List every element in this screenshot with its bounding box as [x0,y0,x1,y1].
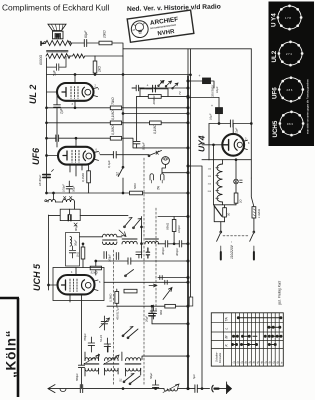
svg-text:7µF: 7µF [235,128,239,133]
svg-text:350/385V: 350/385V [211,84,215,97]
svg-text:0,3MΩ: 0,3MΩ [111,125,115,135]
svg-text:TA: TA [157,186,161,190]
tuning coils row B [85,368,141,376]
svg-text:300pF: 300pF [175,248,179,256]
earth series cap [195,385,197,393]
svg-text:UL2: UL2 [271,50,278,62]
resistor row1 70k [47,107,189,109]
resistor 10k [99,41,112,45]
elco 50uF on bus top [132,85,144,91]
svg-text:9 6 3: 9 6 3 [287,122,293,126]
svg-text:+: + [147,84,149,88]
svg-text:UF6: UF6 [272,87,279,99]
svg-text:T4: T4 [178,91,182,95]
padder caps [104,252,119,260]
mains switch pole 1 [217,231,222,259]
svg-text:2Ω: 2Ω [239,200,243,204]
pins socket UF6 [290,76,293,79]
row TA contact bar [237,317,282,319]
UY4 frame [202,124,251,161]
svg-text:450/517µF: 450/517µF [116,306,120,320]
svg-text:6000Ω: 6000Ω [39,54,43,65]
resistor R feedback 2k [95,55,123,57]
left rail lower wire [48,215,50,290]
svg-text:U Y4: U Y4 [271,13,278,27]
svg-text:0,3MΩ: 0,3MΩ [109,293,113,302]
svg-text:300pF: 300pF [161,247,165,255]
output arrow right [149,284,157,287]
trimmer cap [100,316,110,330]
anode resistor 95k [166,217,182,244]
svg-text:UY4: UY4 [197,135,207,152]
svg-text:+: + [199,74,201,78]
svg-text:50pF: 50pF [74,240,78,246]
frame top wire [123,48,251,50]
TA jack [162,157,189,174]
resistor row2 0.1M [47,122,189,124]
tube socket chart black strip [269,2,315,147]
svg-text:Schalter-: Schalter- [215,352,219,362]
svg-text:0,1MΩ: 0,1MΩ [153,124,157,134]
title block corner [0,298,19,397]
wire y113.5 [123,113,188,115]
pins socket UL2 [289,41,292,44]
socket UCH5 [280,112,303,135]
svg-text:0,1MΩ: 0,1MΩ [81,172,85,182]
IF feed wire vertical [141,217,143,259]
svg-text:UF6: UF6 [31,147,41,165]
screen feed wire y306 [107,305,188,307]
resistor row3 0.3M [47,138,189,148]
wire row y74.5 [47,49,191,297]
dial lamp branch [234,159,243,205]
HT wire with cap 7uF to rectifier [209,123,251,125]
svg-text:2µF: 2µF [60,107,64,115]
svg-text:„Köln“: „Köln“ [3,330,18,378]
svg-text:2000Ω: 2000Ω [152,95,156,106]
svg-text:50pF: 50pF [72,185,76,192]
svg-text:S1: S1 [119,378,123,382]
cathode elco UF6 [43,175,50,178]
wire y216.5 [158,216,188,218]
svg-text:760pF: 760pF [83,333,87,341]
tube UL2 [47,75,100,108]
HT bus thick [187,49,189,76]
cap 0.5uF [133,141,140,148]
row L contacts [268,326,281,328]
osc coil feed wire y356 [142,356,188,359]
svg-text:51-43: 51-43 [99,335,103,342]
socket UY4 [278,6,301,29]
row M contacts [233,335,283,337]
transformer core [47,51,69,52]
output transformer secondary winding [46,54,70,59]
padder caps left [88,337,94,352]
svg-text:1 7 8: 1 7 8 [285,16,291,20]
aerial series cap [80,385,82,393]
svg-text:man sieht von unten gegen die: man sieht von unten gegen die Fassung ge… [307,79,310,134]
stamp NVHR archief [127,10,194,42]
aerial coil [164,389,178,391]
hum coil winding [68,54,95,58]
svg-text:0,1µF: 0,1µF [107,160,111,168]
earth bus wire bottom [48,388,210,390]
wire y88 [144,88,219,98]
svg-text:100pF: 100pF [108,254,112,262]
bus line x202 [188,166,202,389]
screen wire row y193 with 50 ohm [47,192,189,194]
svg-text:1kΩ: 1kΩ [76,251,80,257]
thermo fuse block [214,160,237,232]
svg-text:110/220V: 110/220V [230,244,234,259]
switch S2 [118,168,123,177]
svg-text:10kΩ: 10kΩ [103,30,107,38]
IF tuning cap [136,252,142,258]
MAIN SCHEMATIC [28,24,261,393]
capacitor 80uF [84,40,86,47]
svg-text:100pF: 100pF [177,225,181,233]
volume pot arrow [163,288,172,300]
svg-text:800pF: 800pF [75,373,79,381]
cap 0.1uF grid [100,154,149,156]
mains switch pole 2 [250,178,261,260]
tube box UCH5 [53,268,104,301]
caps 100pF 50pF [66,181,72,193]
cap 800pF [78,365,84,388]
decoupling elco branch [151,305,153,307]
switch link dashed [223,235,249,237]
tube UCH5 [49,268,102,366]
anode wire with C + R to bus [70,43,123,167]
chassis dashed segment [155,208,157,312]
IF block cap [146,248,149,258]
output transformer primary winding [46,40,72,45]
svg-text:S2: S2 [116,172,120,176]
elco smoothing 1 [187,74,219,97]
band switch S3 [122,327,138,339]
band switch mid [124,218,141,277]
svg-text:0,5µF: 0,5µF [142,142,146,150]
svg-text:L: L [225,328,229,330]
antenna trimmer box [49,209,129,231]
svg-text:2kΩ: 2kΩ [98,66,102,73]
pins socket UY4 [288,5,291,8]
band switch S1 [119,374,141,385]
svg-text:M: M [225,336,229,339]
svg-text:~: ~ [230,241,234,243]
svg-text:gez. Freitag Kurz: gez. Freitag Kurz [278,280,282,305]
svg-text:1 62kΩ: 1 62kΩ [257,208,261,218]
antenna input coil L1 [45,192,75,209]
oscillator coil screen box [66,233,80,267]
frame right wire [250,49,252,178]
svg-text:0,1MΩ: 0,1MΩ [111,110,115,120]
switch position table [211,313,283,366]
svg-text:3Ω: 3Ω [228,213,231,216]
row K contacts [232,344,277,346]
wave switch contacts top [158,81,182,96]
earth symbol [212,385,213,392]
svg-text:50Ω: 50Ω [133,183,137,189]
tube UY4 rectifier [202,124,250,156]
svg-text:Compliments of Eckhard Kull: Compliments of Eckhard Kull [2,3,110,13]
svg-text:2 8 6: 2 8 6 [287,88,293,92]
TA terminals [150,174,164,190]
heater dropper winding [208,160,223,205]
socket UL2 [279,42,302,65]
chassis dashed lines [113,250,115,386]
aerial arrow [48,385,55,393]
socket UF6 [279,78,303,102]
svg-text:50µF: 50µF [149,372,153,379]
AVC caps y275/y282 [104,276,189,285]
svg-text:2 7 4: 2 7 4 [286,52,292,56]
loudspeaker LS [48,24,66,39]
svg-text:16µF: 16µF [215,86,219,93]
grid resistor 51k [90,260,101,275]
TA pickup switch [148,151,161,157]
IF caps row y243.8 [158,241,189,256]
capacitor tone [47,56,67,70]
svg-text:90Ω: 90Ω [159,310,163,315]
input terminal [41,42,44,46]
tuning coils row A [84,344,141,365]
wire to bus y324 [152,323,188,325]
IF transformer coils [80,230,159,245]
svg-text:+: + [211,104,213,108]
resistor 0.3M vertical bottom [115,292,119,304]
svg-text:20µF: 20µF [145,315,149,323]
svg-text:51kΩ: 51kΩ [91,270,99,274]
svg-text:UL 2: UL 2 [28,85,38,104]
pins socket UCH5 [290,111,293,114]
svg-text:70kΩ: 70kΩ [111,97,115,105]
elco smoothing 2 [209,98,223,124]
left rail wire [46,58,48,193]
cathode resistor UF6 [87,171,91,183]
svg-text:100pF: 100pF [62,184,66,192]
svg-text:5µF: 5µF [192,374,196,379]
svg-text:UCH 5: UCH 5 [32,263,42,291]
svg-text:16µF: 16µF [209,113,213,120]
svg-text:Kontakte: Kontakte [218,352,222,363]
svg-text:18=65µF: 18=65µF [38,175,42,186]
column foot labels [232,360,284,365]
svg-text:95kΩ: 95kΩ [166,222,170,230]
AVC wire y261 [96,260,188,262]
tube UF6 [47,138,101,176]
svg-text:80µF: 80µF [84,30,88,38]
cap 50uF to earth [152,380,158,389]
coupling cap 2uF on left [54,92,61,147]
coupling cap right [150,305,156,319]
svg-text:UCH5: UCH5 [272,120,279,137]
resistor 2000 ohm with bypass elco [137,95,188,97]
cathode resistor 1k [76,243,85,268]
resistor 0.3M bottom [124,289,137,293]
